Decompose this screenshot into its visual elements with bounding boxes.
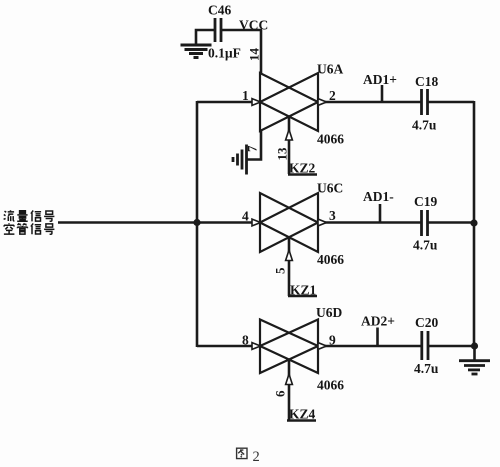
pin 3 arrowhead [318,219,327,226]
pin 1 arrowhead [252,99,261,106]
svg-text:1: 1 [242,88,249,103]
svg-text:C20: C20 [415,315,438,330]
wire: KZ4 underline [287,419,316,422]
svg-text:3: 3 [329,208,336,223]
svg-text:7: 7 [245,145,260,152]
ground (bottom-right) [459,361,490,374]
svg-text:4.7u: 4.7u [414,361,439,376]
pin 13 arrowhead [286,130,293,141]
wire: KZ1 control line to pin 5 [288,237,291,296]
svg-text:4.7u: 4.7u [413,238,438,253]
svg-text:6: 6 [273,390,288,397]
svg-text:8: 8 [242,333,249,348]
wire: KZ1 underline [288,295,317,298]
svg-text:9: 9 [329,333,336,348]
char XIN (letter/signal) row2 [31,223,41,234]
char HAO (number) row2 [44,224,54,234]
wire: pin 8 input wire from left bus [197,345,253,348]
svg-text:4: 4 [242,209,249,224]
caption: figure 2 (TU char + 2) [237,448,247,458]
wire: pin 3 output wire to C19 [318,221,421,224]
pin 2 arrowhead [318,99,327,106]
svg-text:4066: 4066 [317,252,344,267]
svg-text:KZ4: KZ4 [289,407,316,422]
char KONG (empty) [4,223,15,234]
wire: ground riser to C46 left plate [196,30,214,44]
wire: pin 14 vertical line (VCC down to U6A) [260,30,263,74]
analog switch U6A (4066 bilateral switch body) [260,73,318,131]
char LIU (flow) [4,210,15,221]
svg-text:5: 5 [273,267,288,274]
svg-text:AD2+: AD2+ [361,314,395,329]
node AD1- stub [379,204,382,223]
svg-text:AD1-: AD1- [363,189,394,204]
wire: right vertical bus [473,101,476,346]
svg-text:C46: C46 [208,3,231,18]
svg-text:4066: 4066 [317,378,344,393]
wire: stub to bottom-right ground [473,346,476,360]
wire: C20 to right bus / ground [428,345,475,348]
svg-text:4066: 4066 [317,132,344,147]
wire: pin 1 input wire from left bus [197,101,253,104]
capacitor C19 plates [422,210,428,236]
svg-text:2: 2 [253,449,260,465]
pin 9 arrowhead [318,343,327,350]
ground (top-left, at C46) [181,45,212,58]
capacitor C20 plates [422,331,428,360]
wire: C19 to right bus [428,221,474,224]
wire: C46 right plate to VCC corner [222,29,262,32]
pin 5 arrowhead [286,250,293,261]
wire: KZ4 control line to pin 6 [288,361,291,421]
svg-text:VCC: VCC [239,18,268,33]
svg-text:4.7u: 4.7u [412,118,437,133]
wire: left vertical bus [196,101,199,347]
svg-text:KZ2: KZ2 [289,161,316,176]
char HAO (number) [44,211,54,221]
junction node at right bus / C19 wire [470,219,477,226]
analog switch U6D (4066 bilateral switch body) [260,320,318,374]
junction node at left bus / input wire [193,219,200,226]
ground (pin 7, left-facing) [233,145,247,175]
junction node at right bus / C20 wire [471,342,478,349]
svg-text:0.1µF: 0.1µF [208,46,241,61]
svg-text:13: 13 [275,147,290,161]
svg-text:AD1+: AD1+ [363,72,397,87]
pin 8 arrowhead [252,343,261,350]
analog switch U6C (4066 bilateral switch body) [260,193,318,252]
wire: pin 9 output wire to C20 [318,345,421,348]
capacitor C46 plates [215,18,221,42]
svg-text:C19: C19 [414,194,437,209]
char GUAN (pipe/manage) [17,223,27,234]
wire: KZ2 underline [288,173,317,176]
char XIN (letter/signal) [31,211,41,222]
svg-text:14: 14 [247,48,262,62]
svg-text:C18: C18 [415,74,438,89]
wire: pin 2 output wire to C18 [318,101,421,104]
char LIANG (quantity) [17,211,28,222]
wire: C18 to right bus corner [428,101,474,104]
svg-text:KZ1: KZ1 [290,283,317,298]
wire: KZ2 control line to pin 13 [288,117,291,175]
wire: main input wire (flow/empty-pipe signal) [58,221,253,224]
node AD1+ stub [381,85,384,102]
svg-text:2: 2 [329,88,336,103]
capacitor C18 plates [422,89,428,115]
wire: pin 7 down from U6A to ground [246,131,261,160]
pin 6 arrowhead [286,374,293,385]
label: Chinese input signal names (drawn glyphs) [4,210,55,234]
svg-text:U6D: U6D [316,305,342,320]
pin 4 arrowhead [252,219,261,226]
svg-text:U6C: U6C [317,181,343,196]
svg-text:U6A: U6A [317,62,343,77]
node AD2+ stub [376,328,379,347]
